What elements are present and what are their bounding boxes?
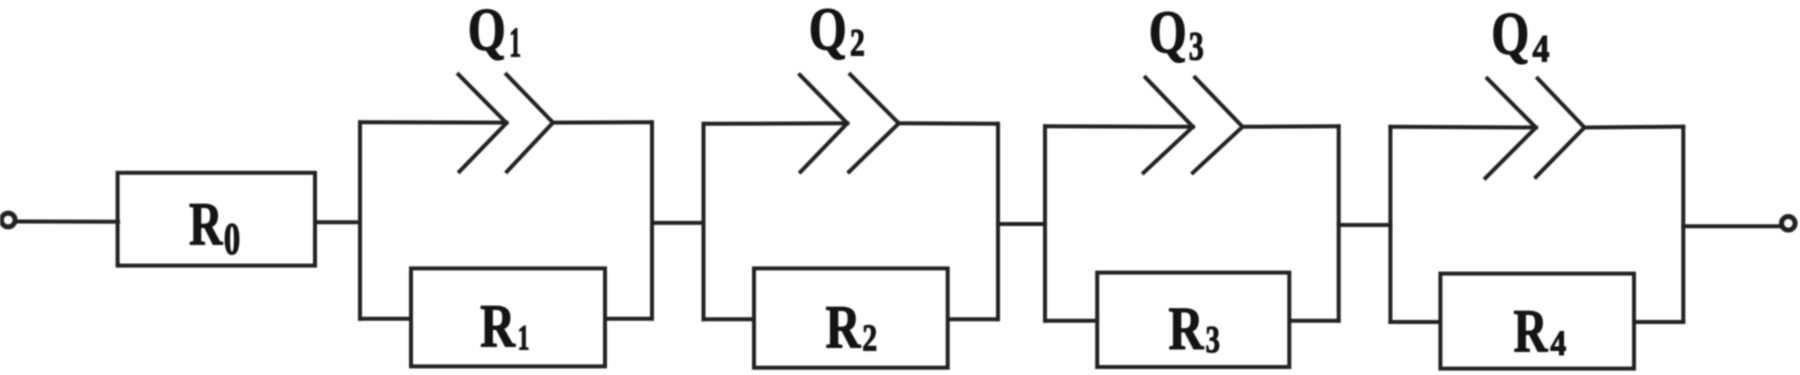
svg-text:2: 2 <box>862 318 877 360</box>
svg-text:2: 2 <box>850 22 865 65</box>
svg-text:Q: Q <box>468 0 506 64</box>
svg-text:Q: Q <box>809 0 847 64</box>
svg-text:3: 3 <box>1189 24 1204 69</box>
svg-text:4: 4 <box>1550 323 1566 363</box>
svg-text:R: R <box>189 192 223 259</box>
svg-text:Q: Q <box>1491 1 1529 68</box>
svg-text:0: 0 <box>224 214 241 264</box>
svg-text:3: 3 <box>1206 319 1221 361</box>
svg-text:4: 4 <box>1533 28 1550 71</box>
svg-text:R: R <box>480 294 516 361</box>
svg-text:1: 1 <box>518 317 530 357</box>
svg-text:R: R <box>826 295 862 362</box>
svg-text:R: R <box>1169 296 1205 363</box>
svg-text:Q: Q <box>1149 0 1187 67</box>
svg-text:1: 1 <box>509 21 521 67</box>
svg-text:R: R <box>1514 299 1549 366</box>
